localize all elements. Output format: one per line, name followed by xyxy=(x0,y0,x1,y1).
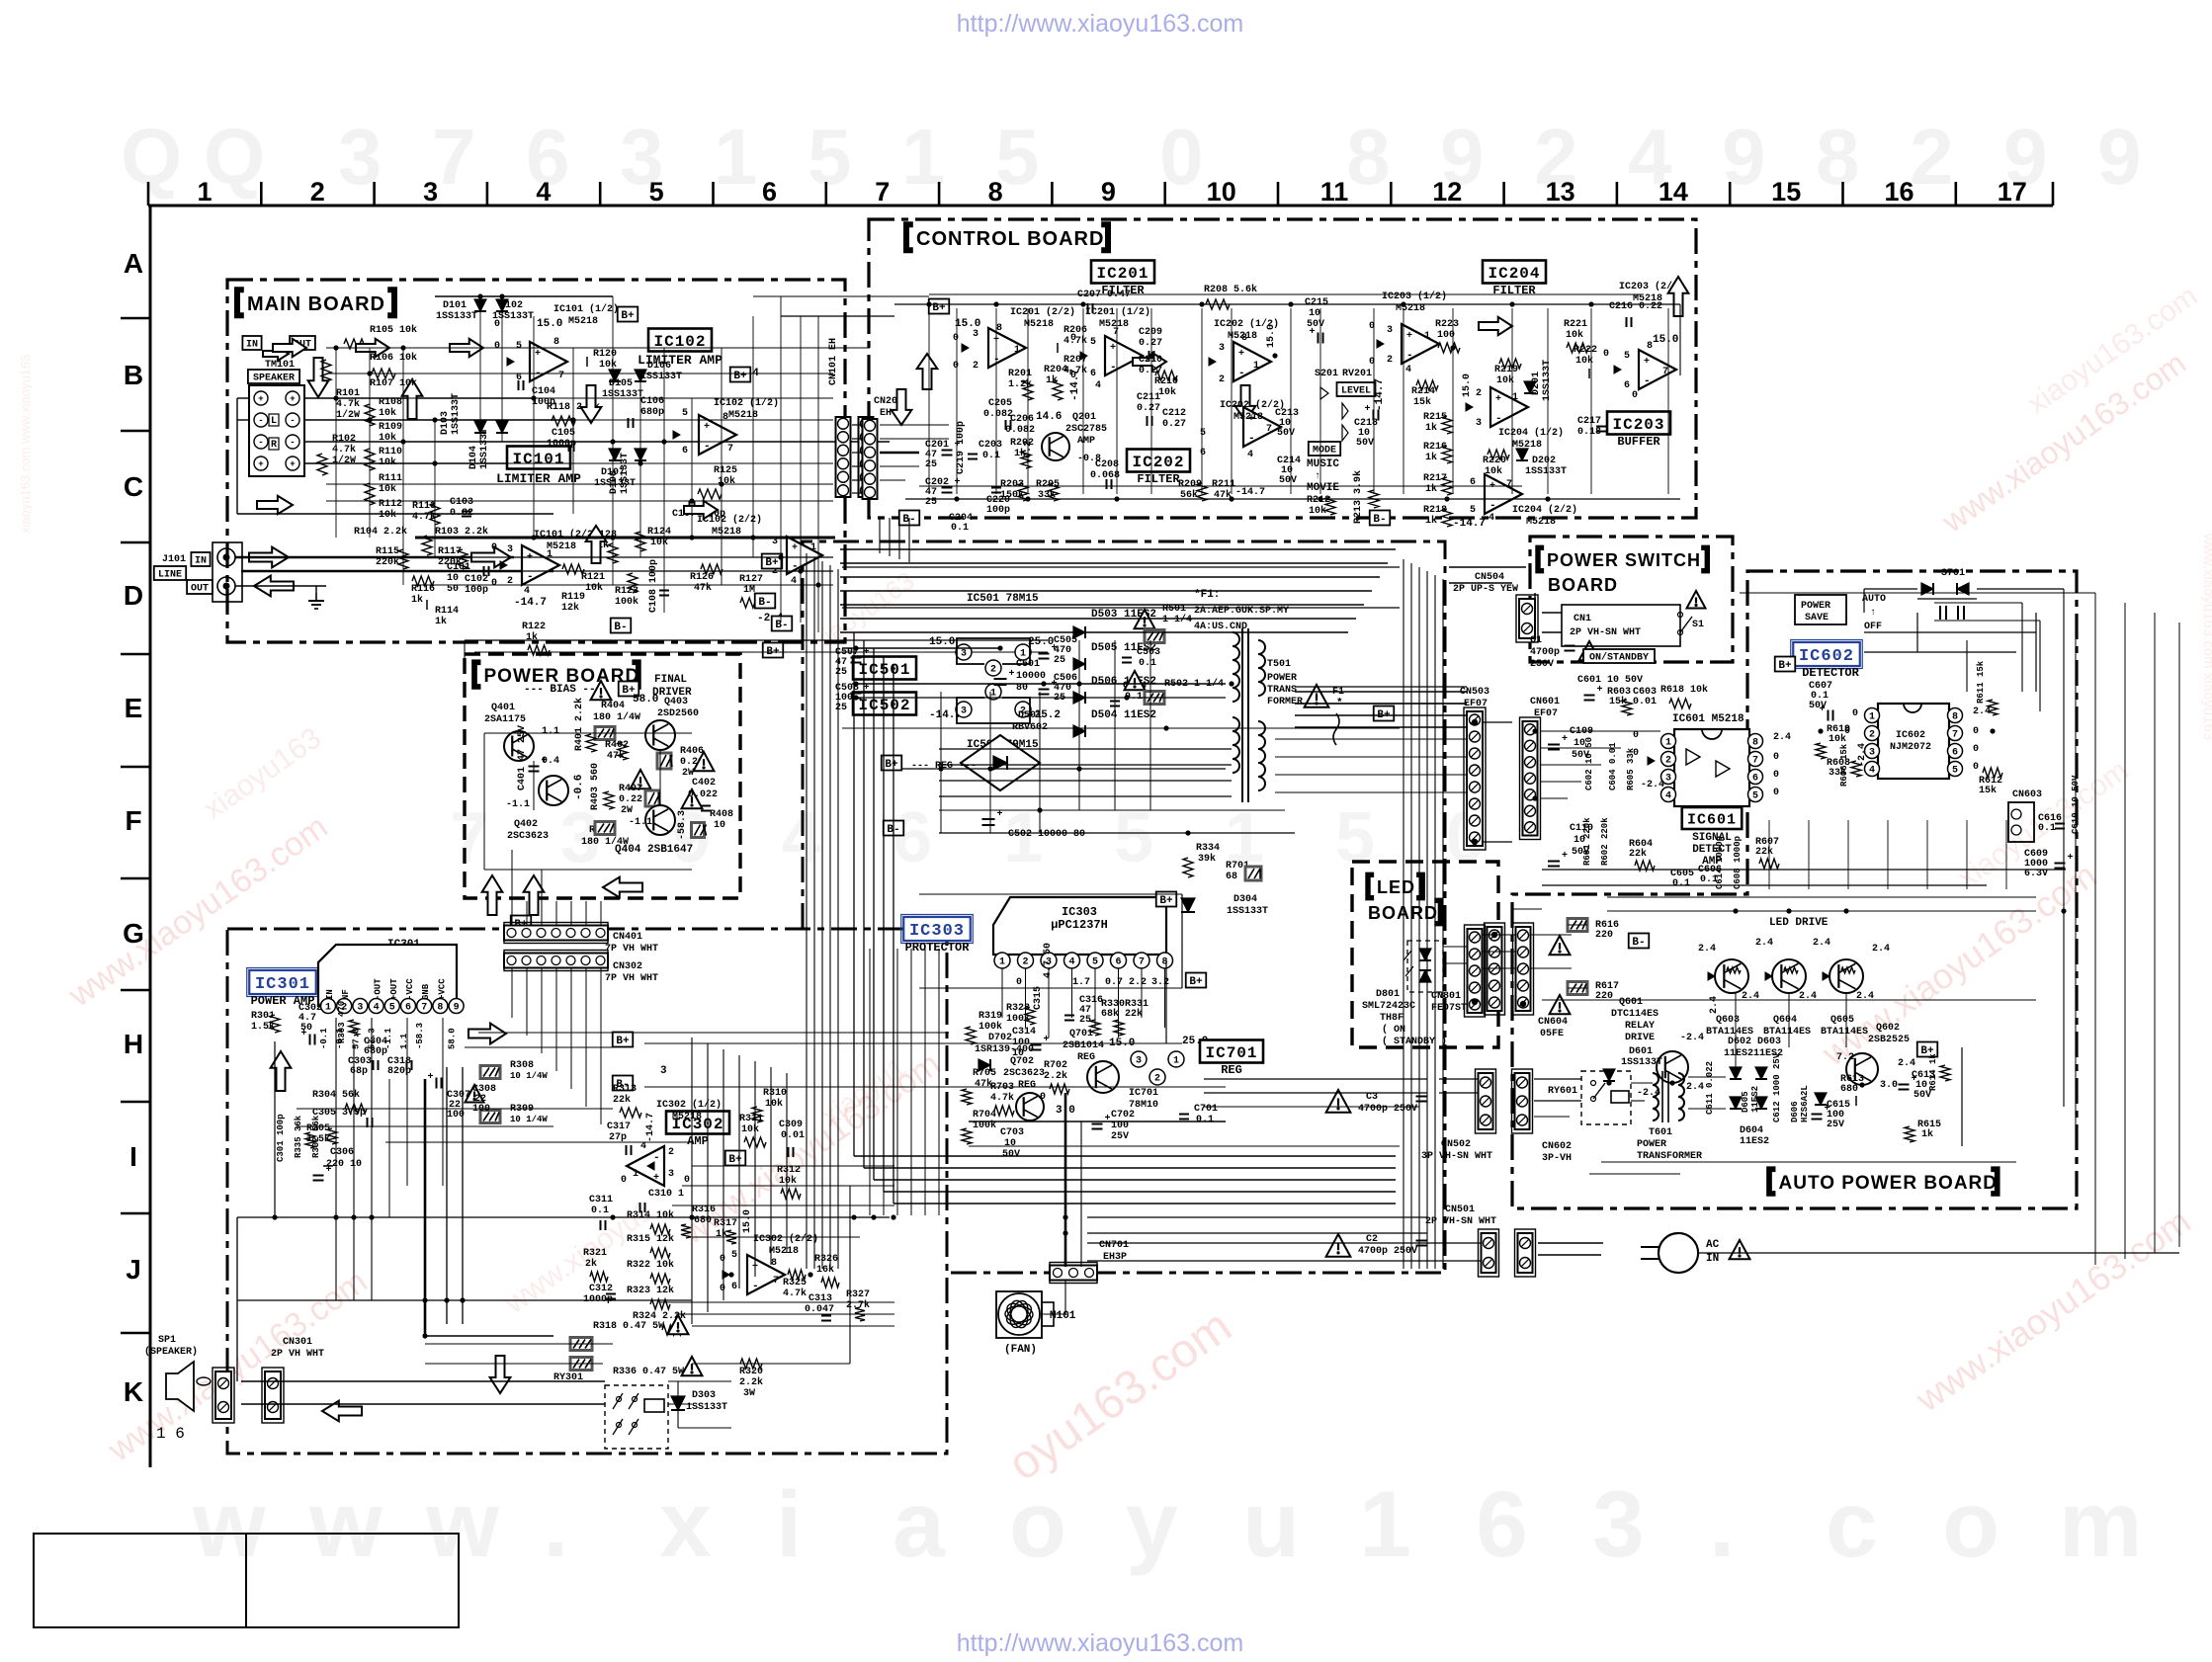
svg-text:2: 2 xyxy=(990,664,996,675)
svg-text:0: 0 xyxy=(684,1175,690,1186)
svg-text:25: 25 xyxy=(835,667,847,678)
svg-text:C208: C208 xyxy=(1095,459,1119,470)
svg-text:8: 8 xyxy=(553,337,559,348)
svg-text:7: 7 xyxy=(1752,755,1758,766)
svg-text:+: + xyxy=(1110,343,1116,354)
svg-text:10k: 10k xyxy=(1566,329,1583,341)
svg-text:4.7k: 4.7k xyxy=(783,1288,807,1299)
svg-text:22k: 22k xyxy=(613,1094,631,1106)
svg-text:POWER SWITCH: POWER SWITCH xyxy=(1547,550,1701,570)
B- control left xyxy=(899,511,920,526)
wire auto power nested left xyxy=(1512,908,1542,910)
svg-text:2: 2 xyxy=(1665,755,1671,766)
svg-text:4: 4 xyxy=(1247,450,1253,460)
svg-text:AUTO: AUTO xyxy=(1862,594,1886,605)
svg-text:10k: 10k xyxy=(1158,386,1176,398)
svg-text:8: 8 xyxy=(1346,113,1391,201)
svg-text:C219 100p: C219 100p xyxy=(956,421,967,474)
svg-text:10k: 10k xyxy=(765,1098,783,1110)
svg-text:R213 3.9k: R213 3.9k xyxy=(1352,470,1364,524)
svg-text:14: 14 xyxy=(1659,177,1688,207)
svg-text:5: 5 xyxy=(389,1002,395,1013)
svg-text:+: + xyxy=(1009,669,1015,680)
MAIN BOARD outline xyxy=(227,280,845,642)
svg-text:C314: C314 xyxy=(1012,1027,1036,1038)
svg-text:22k: 22k xyxy=(1125,1008,1143,1020)
svg-text:6: 6 xyxy=(1752,773,1758,784)
svg-text:+: + xyxy=(653,1173,659,1184)
svg-text:-14.7: -14.7 xyxy=(1235,487,1265,498)
IC202 1/2 opamp xyxy=(1234,342,1271,381)
svg-text:2: 2 xyxy=(310,177,325,207)
svg-text:1SS133T: 1SS133T xyxy=(436,311,477,322)
svg-text:D702: D702 xyxy=(988,1033,1012,1043)
svg-text:C317: C317 xyxy=(607,1122,631,1132)
wire control to main link xyxy=(833,347,870,349)
svg-text:+VCC: +VCC xyxy=(437,978,447,1000)
svg-text:C602 10 50: C602 10 50 xyxy=(1584,737,1594,790)
svg-text:C614 1000p: C614 1000p xyxy=(1715,836,1725,889)
svg-text:4.7k: 4.7k xyxy=(990,1092,1014,1104)
svg-text:2: 2 xyxy=(1219,374,1225,385)
svg-text:10k: 10k xyxy=(379,407,396,419)
svg-text:+: + xyxy=(301,1029,307,1039)
arrows main mid xyxy=(273,339,306,357)
MAIN BOARD title xyxy=(237,290,244,315)
svg-text:3: 3 xyxy=(1592,1472,1645,1577)
svg-text:R318 0.47 5W: R318 0.47 5W xyxy=(593,1321,664,1332)
svg-text:5: 5 xyxy=(1335,798,1375,877)
svg-text:7: 7 xyxy=(773,1276,779,1287)
junction dots main board xyxy=(333,345,338,350)
svg-text:8: 8 xyxy=(1161,956,1167,967)
svg-text:7: 7 xyxy=(1662,367,1668,377)
svg-text:2.4: 2.4 xyxy=(1773,732,1791,743)
svg-text:CN603: CN603 xyxy=(2012,789,2042,800)
svg-text:7: 7 xyxy=(450,798,489,877)
svg-text:-: - xyxy=(704,441,711,453)
svg-text:7.2: 7.2 xyxy=(1836,1052,1854,1063)
svg-text:8: 8 xyxy=(1752,737,1758,748)
IC102 label xyxy=(648,329,712,352)
svg-text:4700p 250V: 4700p 250V xyxy=(1358,1246,1417,1257)
svg-text:TRANS: TRANS xyxy=(1267,685,1297,696)
svg-text:u: u xyxy=(1242,1472,1300,1577)
svg-text:8: 8 xyxy=(771,1258,777,1269)
wire power supply horizontals dense xyxy=(939,748,1232,750)
svg-text:C701: C701 xyxy=(1194,1104,1218,1115)
wire vertical bundle left of middle box xyxy=(806,553,808,1269)
B+ near cn503 xyxy=(1374,706,1395,721)
svg-text:B+: B+ xyxy=(885,759,898,771)
ON/STANDBY label xyxy=(1583,649,1655,664)
svg-text:2SB1014: 2SB1014 xyxy=(1063,1040,1104,1051)
T601 transformer xyxy=(1653,1073,1659,1121)
CONTROL BOARD title xyxy=(906,224,913,250)
svg-text:58.0: 58.0 xyxy=(448,1028,458,1049)
svg-text:0.1: 0.1 xyxy=(591,1205,609,1216)
svg-text:11ES2: 11ES2 xyxy=(1750,1086,1760,1113)
svg-text:AMP: AMP xyxy=(1077,436,1095,447)
svg-text:FINAL: FINAL xyxy=(654,674,687,686)
svg-text:B-: B- xyxy=(1373,514,1386,526)
svg-text:1.1: 1.1 xyxy=(542,726,559,737)
wire right vertical bundle middle box xyxy=(1403,559,1404,1269)
svg-text:2W: 2W xyxy=(621,805,633,816)
svg-text:8: 8 xyxy=(988,177,1003,207)
wire right verticals far xyxy=(2094,593,2096,1265)
svg-text:C211: C211 xyxy=(1137,392,1160,403)
svg-text:0.27: 0.27 xyxy=(1162,419,1186,430)
svg-text:6: 6 xyxy=(1090,369,1096,379)
svg-text:4: 4 xyxy=(1068,956,1074,967)
wire right top link S701 xyxy=(1864,588,1917,590)
speaker connectors xyxy=(213,1368,234,1423)
wire speaker outputs xyxy=(304,397,534,399)
svg-text:R406: R406 xyxy=(680,746,704,757)
svg-text:1000p: 1000p xyxy=(547,439,576,450)
svg-text:R322 10k: R322 10k xyxy=(627,1259,674,1271)
svg-text:2.2: 2.2 xyxy=(1129,977,1147,988)
svg-text:G: G xyxy=(123,918,144,949)
svg-text:0: 0 xyxy=(1632,390,1638,401)
svg-text:DTC114ES: DTC114ES xyxy=(1611,1009,1659,1020)
svg-text:D303: D303 xyxy=(692,1390,716,1401)
svg-text:3W: 3W xyxy=(743,1388,755,1399)
svg-text:Q702: Q702 xyxy=(1010,1056,1034,1067)
svg-text:+: + xyxy=(1597,685,1603,696)
svg-text:M5218: M5218 xyxy=(712,527,741,538)
svg-text:0: 0 xyxy=(1603,349,1609,360)
svg-text:BUFFER: BUFFER xyxy=(1617,435,1660,449)
svg-text:IN: IN xyxy=(1706,1253,1719,1265)
svg-text:C103: C103 xyxy=(450,497,473,508)
svg-text:8: 8 xyxy=(1952,711,1958,722)
arrow right bottom xyxy=(468,1024,506,1044)
svg-text:1: 1 xyxy=(1014,345,1020,356)
wire bottom of middle box xyxy=(969,1121,1226,1122)
svg-text:a: a xyxy=(893,1472,946,1577)
svg-text:0.1: 0.1 xyxy=(951,523,969,534)
svg-text:BTA114ES: BTA114ES xyxy=(1821,1027,1868,1038)
svg-text:3: 3 xyxy=(668,1169,674,1180)
revision table xyxy=(34,1534,459,1627)
wire relay transformer link xyxy=(1534,1100,1581,1102)
svg-text:0.047: 0.047 xyxy=(805,1304,834,1315)
svg-text:R606 15k: R606 15k xyxy=(1839,743,1849,787)
junction dots bottom xyxy=(333,1214,338,1219)
svg-text:R614 1k: R614 1k xyxy=(1928,1053,1938,1091)
wire bottom horizontals xyxy=(237,1299,692,1301)
svg-text:C212: C212 xyxy=(1162,408,1186,419)
svg-text:1: 1 xyxy=(1359,1472,1411,1577)
svg-text:10k: 10k xyxy=(741,1123,759,1135)
junction dots power supply xyxy=(853,645,858,650)
svg-text:IC203: IC203 xyxy=(1612,416,1664,434)
svg-text:1: 1 xyxy=(1512,392,1518,403)
T501 transformer xyxy=(1233,632,1239,702)
svg-text:R302 56k: R302 56k xyxy=(311,1115,321,1158)
svg-text:M5218: M5218 xyxy=(1024,319,1054,330)
svg-text:R105 10k: R105 10k xyxy=(370,324,417,336)
svg-text:0: 0 xyxy=(953,361,959,372)
svg-text:100p: 100p xyxy=(465,585,488,596)
svg-text:R114: R114 xyxy=(435,606,459,617)
svg-text:LINE: LINE xyxy=(158,570,182,581)
svg-text:10k: 10k xyxy=(379,483,396,495)
svg-text:0: 0 xyxy=(1973,762,1979,773)
svg-text:10k: 10k xyxy=(599,359,617,371)
svg-text:C209: C209 xyxy=(1139,327,1162,338)
svg-text:IC501 78M15: IC501 78M15 xyxy=(967,593,1039,605)
svg-text:0.068: 0.068 xyxy=(1090,470,1120,481)
svg-text:C104: C104 xyxy=(532,386,555,397)
svg-text:10k: 10k xyxy=(779,1175,797,1187)
svg-text:0.27: 0.27 xyxy=(1139,338,1162,349)
svg-text:D103: D103 xyxy=(440,411,451,435)
svg-text:100: 100 xyxy=(1437,330,1455,341)
AUTO POWER BOARD title xyxy=(1769,1169,1775,1194)
svg-text:D101: D101 xyxy=(443,300,467,311)
svg-text:+: + xyxy=(326,1165,332,1176)
svg-text:250V: 250V xyxy=(1530,659,1554,670)
wire reg bus xyxy=(901,768,1226,770)
svg-text:10k: 10k xyxy=(1575,355,1593,367)
svg-text:CN604: CN604 xyxy=(1538,1017,1568,1028)
svg-text:-: - xyxy=(1495,413,1502,425)
svg-text:IC601 M5218: IC601 M5218 xyxy=(1672,713,1744,725)
svg-text:C401 47 25V: C401 47 25V xyxy=(517,725,528,790)
wire IC303 pin drops xyxy=(1001,968,1003,1018)
svg-text:IC602: IC602 xyxy=(1896,730,1925,741)
svg-text:2: 2 xyxy=(973,361,978,372)
svg-text:10: 10 xyxy=(714,820,725,831)
CN1 label inside PSB xyxy=(1562,605,1680,646)
wire bundle to CN503 xyxy=(1295,691,1467,693)
IC202 2/2 opamp xyxy=(1243,407,1281,447)
svg-text:AMP: AMP xyxy=(687,1134,709,1148)
IC502 label xyxy=(853,693,916,715)
svg-text:0.27: 0.27 xyxy=(1137,403,1160,414)
svg-text:Q: Q xyxy=(204,113,265,201)
svg-text:2P VH WHT: 2P VH WHT xyxy=(271,1349,324,1360)
svg-text:FILTER: FILTER xyxy=(1137,472,1180,486)
svg-text:180 1/4W: 180 1/4W xyxy=(581,836,629,848)
svg-text:LED: LED xyxy=(1377,877,1415,897)
B+ label main2 xyxy=(730,368,751,382)
svg-text:10 1/4W: 10 1/4W xyxy=(510,1115,548,1124)
svg-text:10 1/4W: 10 1/4W xyxy=(510,1071,548,1081)
svg-text:1SS133T: 1SS133T xyxy=(451,393,462,435)
svg-text:-: - xyxy=(1406,350,1413,362)
svg-text:22k: 22k xyxy=(1629,848,1647,860)
ruler top line xyxy=(148,205,2053,208)
svg-text:R704: R704 xyxy=(973,1110,996,1121)
svg-text:14.6: 14.6 xyxy=(1036,411,1062,423)
svg-text:7: 7 xyxy=(727,444,733,455)
svg-text:68p: 68p xyxy=(350,1066,368,1077)
svg-text:2.2k: 2.2k xyxy=(1044,1070,1067,1082)
svg-text:M5218: M5218 xyxy=(1526,517,1556,528)
svg-text:2: 2 xyxy=(668,1147,674,1158)
svg-text:100: 100 xyxy=(447,1110,465,1121)
svg-text:+: + xyxy=(542,756,548,767)
svg-text:R125: R125 xyxy=(714,465,737,476)
svg-text:C108 100p: C108 100p xyxy=(648,559,659,613)
svg-text:B-: B- xyxy=(1632,937,1645,949)
svg-text:05FE: 05FE xyxy=(1540,1029,1564,1039)
svg-text:EH: EH xyxy=(880,408,892,419)
svg-text:1k: 1k xyxy=(1425,515,1437,527)
svg-text:R335 36k: R335 36k xyxy=(294,1115,303,1158)
svg-text:C608 1000p: C608 1000p xyxy=(1733,836,1743,889)
svg-text:D501: D501 xyxy=(1018,710,1042,721)
svg-text:0: 0 xyxy=(1973,726,1979,737)
svg-text:M5218: M5218 xyxy=(1234,412,1263,423)
svg-text:+: + xyxy=(258,459,263,469)
svg-text:+OUT: +OUT xyxy=(389,978,399,1000)
svg-text:0.1: 0.1 xyxy=(1139,658,1156,669)
svg-text:1k: 1k xyxy=(1425,422,1437,434)
svg-text:5: 5 xyxy=(731,1250,737,1261)
svg-text:4: 4 xyxy=(1405,365,1411,375)
svg-text:C: C xyxy=(124,471,143,502)
svg-text:0: 0 xyxy=(1773,752,1779,763)
IC701 label xyxy=(1200,1040,1263,1063)
svg-text:5: 5 xyxy=(1200,428,1206,439)
C3 4700p xyxy=(1326,1090,1351,1113)
svg-text:1 6: 1 6 xyxy=(156,1425,185,1443)
wire S701 nested corners xyxy=(1934,602,2022,604)
svg-text:7: 7 xyxy=(421,1002,427,1013)
svg-text:RY601: RY601 xyxy=(1548,1086,1577,1097)
svg-text:25: 25 xyxy=(835,703,847,713)
svg-text:-VCC: -VCC xyxy=(405,978,415,1000)
MODE MUSIC MOVIE xyxy=(1309,442,1340,457)
svg-text:( STANDBY ): ( STANDBY ) xyxy=(1382,1036,1447,1047)
svg-text:IC303: IC303 xyxy=(909,922,965,941)
wire auto power internal verticals xyxy=(1768,820,1770,889)
svg-text:H: H xyxy=(124,1029,143,1059)
svg-text:1SR139-400: 1SR139-400 xyxy=(975,1044,1034,1055)
svg-text:2.4: 2.4 xyxy=(1698,944,1716,955)
wire IC301 outputs to relay xyxy=(425,1335,553,1337)
svg-text:1SS133T: 1SS133T xyxy=(620,453,631,494)
svg-text:1k: 1k xyxy=(1425,452,1437,463)
svg-text:2: 2 xyxy=(1910,113,1954,201)
B+ label main1 xyxy=(618,307,638,322)
wire main board to bottom at left xyxy=(236,1217,238,1381)
IC301 blue label xyxy=(247,968,319,997)
svg-text:IC101: IC101 xyxy=(512,451,564,468)
svg-text:J: J xyxy=(126,1254,141,1285)
svg-text:MOVIE: MOVIE xyxy=(1307,482,1339,494)
svg-text:-: - xyxy=(1248,433,1255,445)
svg-text:Q605: Q605 xyxy=(1830,1015,1854,1026)
wire CN401 down bundle xyxy=(511,901,513,926)
svg-text:6: 6 xyxy=(1952,747,1958,758)
svg-text:0.22: 0.22 xyxy=(619,794,642,805)
svg-text:TRANSFORMER: TRANSFORMER xyxy=(1637,1151,1702,1162)
svg-text:R: R xyxy=(271,440,277,451)
svg-text:1k: 1k xyxy=(1425,483,1437,495)
POWER SWITCH BOARD title xyxy=(1538,547,1544,570)
svg-text:C601 10 50V: C601 10 50V xyxy=(1577,675,1643,686)
wire mid verticals power supply xyxy=(940,692,942,833)
svg-text:K: K xyxy=(124,1376,143,1407)
wires J101 xyxy=(235,556,514,559)
svg-text:RELAY: RELAY xyxy=(1625,1021,1655,1032)
svg-text:+: + xyxy=(704,422,710,433)
svg-text:1: 1 xyxy=(1253,361,1259,372)
svg-text:6: 6 xyxy=(1200,448,1206,458)
arrow left speaker xyxy=(322,1401,362,1422)
svg-text:M5218: M5218 xyxy=(769,1246,799,1257)
svg-text:c: c xyxy=(1826,1472,1878,1577)
svg-text:1: 1 xyxy=(325,1002,331,1013)
svg-text:S201: S201 xyxy=(1315,369,1338,379)
svg-text:2SC3623: 2SC3623 xyxy=(507,831,549,842)
svg-text:27p: 27p xyxy=(609,1132,627,1143)
F1 warning xyxy=(1305,685,1329,707)
svg-text:SIGNAL: SIGNAL xyxy=(1692,832,1732,844)
svg-text:ON/STANDBY: ON/STANDBY xyxy=(1589,652,1649,664)
svg-text:J101: J101 xyxy=(162,554,186,565)
svg-text:C309: C309 xyxy=(779,1120,803,1130)
svg-text:0.082: 0.082 xyxy=(1005,425,1035,436)
svg-text:+: + xyxy=(1644,357,1650,368)
junction dots control board xyxy=(926,301,931,306)
svg-text:-58.3: -58.3 xyxy=(677,810,688,840)
svg-text:1: 1 xyxy=(1424,331,1430,342)
speaker terminal TM101 xyxy=(242,336,261,351)
svg-text:180 1/4W: 180 1/4W xyxy=(593,711,640,723)
svg-text:+: + xyxy=(1495,394,1501,405)
svg-text:6.3V: 6.3V xyxy=(2024,869,2048,879)
svg-text:R317: R317 xyxy=(714,1218,737,1229)
svg-text:+: + xyxy=(428,1072,434,1083)
svg-text:+: + xyxy=(1310,327,1316,338)
opamp IC101 1/2 xyxy=(530,342,567,381)
svg-text:-: - xyxy=(1238,368,1245,379)
svg-text:0: 0 xyxy=(1844,726,1850,737)
svg-text:R127: R127 xyxy=(739,574,763,585)
svg-text:8: 8 xyxy=(1647,341,1653,352)
svg-text:12: 12 xyxy=(1432,177,1462,207)
B+ sbox ic302 xyxy=(725,1151,746,1166)
arrow line out xyxy=(254,576,294,597)
svg-text:50V: 50V xyxy=(1002,1149,1020,1160)
arrow up ic301 xyxy=(271,1051,292,1091)
svg-text:F: F xyxy=(125,805,141,836)
svg-text:2.4: 2.4 xyxy=(1898,1058,1915,1069)
svg-text:2: 2 xyxy=(1154,1073,1160,1084)
svg-text:C604 0.01: C604 0.01 xyxy=(1608,742,1618,790)
svg-text:POWER: POWER xyxy=(1637,1139,1666,1150)
svg-text:1SS133T: 1SS133T xyxy=(1525,466,1567,477)
control board wires xyxy=(894,303,1680,305)
svg-text:50: 50 xyxy=(447,584,459,595)
svg-text:CN302: CN302 xyxy=(613,961,642,972)
svg-text:1k: 1k xyxy=(526,631,538,643)
svg-text:C306: C306 xyxy=(330,1147,354,1158)
svg-text:+: + xyxy=(997,809,1003,820)
svg-text:-: - xyxy=(752,1281,759,1292)
svg-text:C611 0.022: C611 0.022 xyxy=(1705,1061,1715,1115)
svg-text:0: 0 xyxy=(1773,770,1779,781)
svg-text:R115: R115 xyxy=(376,546,399,557)
svg-text:Q604: Q604 xyxy=(1773,1015,1797,1026)
